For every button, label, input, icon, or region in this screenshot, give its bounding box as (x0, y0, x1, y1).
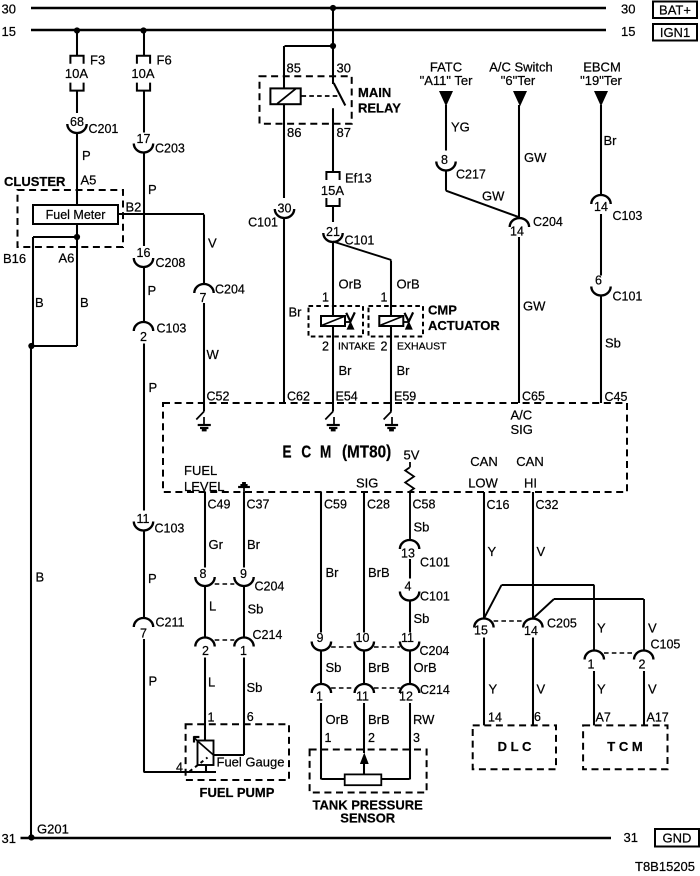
svg-text:C28: C28 (367, 498, 390, 512)
svg-text:W: W (207, 347, 220, 362)
svg-text:21: 21 (326, 225, 340, 239)
svg-text:A17: A17 (647, 711, 669, 725)
svg-text:CLUSTER: CLUSTER (4, 174, 66, 189)
svg-text:T C M: T C M (607, 739, 642, 754)
svg-text:Sb: Sb (605, 336, 621, 351)
svg-text:INTAKE: INTAKE (338, 341, 375, 353)
svg-text:CMP: CMP (428, 303, 457, 318)
svg-text:GW: GW (524, 150, 547, 165)
svg-text:OrB: OrB (339, 277, 362, 292)
svg-text:10: 10 (356, 631, 370, 645)
svg-text:GW: GW (523, 299, 546, 314)
svg-text:Ef13: Ef13 (345, 171, 372, 186)
svg-text:A/C: A/C (511, 408, 533, 423)
svg-text:SIG: SIG (356, 476, 378, 491)
svg-text:15A: 15A (321, 183, 344, 198)
svg-text:2: 2 (381, 340, 388, 354)
svg-text:31: 31 (2, 831, 16, 846)
svg-text:E54: E54 (336, 390, 358, 404)
svg-text:HI: HI (524, 476, 537, 491)
svg-text:SENSOR: SENSOR (340, 811, 396, 826)
svg-text:85: 85 (287, 61, 301, 76)
svg-text:P: P (149, 674, 158, 689)
svg-text:Y: Y (489, 682, 498, 697)
svg-text:GW: GW (482, 189, 505, 204)
svg-text:A5: A5 (81, 173, 97, 188)
svg-text:30: 30 (621, 2, 635, 17)
svg-text:LEVEL: LEVEL (184, 479, 224, 494)
svg-text:IGN1: IGN1 (660, 25, 690, 40)
svg-text:86: 86 (287, 125, 301, 140)
svg-text:4: 4 (176, 761, 183, 775)
svg-text:SIG: SIG (511, 422, 533, 437)
svg-text:Y: Y (597, 621, 606, 636)
svg-text:L: L (208, 675, 215, 690)
svg-text:14: 14 (488, 711, 502, 725)
svg-text:Br: Br (289, 305, 303, 320)
svg-text:C62: C62 (287, 390, 310, 404)
svg-text:BrB: BrB (368, 712, 390, 727)
svg-text:BrB: BrB (368, 565, 390, 580)
svg-text:1: 1 (381, 291, 388, 305)
svg-text:1: 1 (240, 644, 247, 658)
svg-text:68: 68 (70, 115, 84, 129)
svg-text:F3: F3 (90, 53, 105, 68)
svg-text:Br: Br (326, 565, 340, 580)
svg-text:Br: Br (247, 537, 261, 552)
svg-text:7: 7 (200, 291, 207, 305)
svg-text:CAN: CAN (516, 454, 543, 469)
svg-text:15: 15 (2, 24, 16, 39)
svg-text:Sb: Sb (248, 602, 264, 617)
svg-text:B: B (36, 570, 45, 585)
svg-text:C204: C204 (533, 215, 563, 229)
svg-text:10A: 10A (65, 66, 88, 81)
svg-text:C203: C203 (155, 142, 185, 156)
svg-text:C32: C32 (536, 498, 559, 512)
svg-text:1: 1 (325, 731, 332, 745)
svg-text:C16: C16 (487, 498, 510, 512)
svg-text:15: 15 (474, 624, 488, 638)
svg-text:OrB: OrB (326, 712, 349, 727)
svg-text:L: L (209, 599, 216, 614)
svg-text:C103: C103 (155, 522, 185, 536)
svg-text:C59: C59 (324, 498, 347, 512)
svg-text:14: 14 (594, 200, 608, 214)
svg-text:T8B15205: T8B15205 (635, 859, 695, 874)
svg-text:C204: C204 (420, 644, 450, 658)
svg-text:2: 2 (202, 644, 209, 658)
svg-text:16: 16 (137, 246, 151, 260)
svg-text:B16: B16 (3, 251, 26, 266)
svg-text:Fuel Meter: Fuel Meter (46, 208, 106, 222)
svg-text:C45: C45 (605, 390, 628, 404)
svg-text:1: 1 (588, 658, 595, 672)
svg-text:B2: B2 (126, 200, 142, 215)
svg-text:V: V (537, 682, 546, 697)
svg-text:C65: C65 (522, 390, 545, 404)
svg-text:E: E (283, 443, 292, 462)
svg-text:C101: C101 (420, 556, 450, 570)
svg-text:GND: GND (663, 831, 692, 846)
svg-text:OrB: OrB (414, 660, 437, 675)
svg-text:D L C: D L C (498, 739, 532, 754)
svg-text:C204: C204 (215, 283, 245, 297)
svg-text:9: 9 (317, 631, 324, 645)
svg-text:12: 12 (399, 690, 413, 704)
svg-text:1: 1 (322, 291, 329, 305)
svg-text:8: 8 (441, 153, 448, 167)
svg-text:Br: Br (339, 363, 353, 378)
svg-text:Sb: Sb (326, 660, 342, 675)
svg-text:2: 2 (368, 731, 375, 745)
svg-text:9: 9 (240, 567, 247, 581)
svg-text:FUEL PUMP: FUEL PUMP (200, 785, 275, 800)
svg-text:BrB: BrB (368, 660, 390, 675)
svg-text:C: C (301, 443, 311, 462)
svg-text:V: V (208, 236, 217, 251)
svg-text:P: P (148, 571, 157, 586)
svg-text:(MT80): (MT80) (342, 443, 391, 462)
svg-text:C103: C103 (157, 322, 187, 336)
svg-text:Sb: Sb (247, 680, 263, 695)
svg-text:4: 4 (405, 580, 412, 594)
svg-text:31: 31 (624, 830, 638, 845)
svg-text:BAT+: BAT+ (659, 3, 691, 18)
svg-text:10A: 10A (131, 66, 154, 81)
svg-text:Fuel Gauge: Fuel Gauge (217, 755, 285, 770)
svg-text:14: 14 (524, 624, 538, 638)
svg-text:2: 2 (140, 330, 147, 344)
svg-text:2: 2 (639, 658, 646, 672)
svg-text:3: 3 (413, 731, 420, 745)
svg-text:5V: 5V (404, 448, 420, 463)
svg-text:30: 30 (278, 202, 292, 216)
svg-text:Br: Br (604, 133, 618, 148)
svg-text:C101: C101 (613, 290, 643, 304)
svg-text:Gr: Gr (209, 537, 224, 552)
svg-text:YG: YG (451, 120, 470, 135)
svg-text:LOW: LOW (468, 476, 498, 491)
svg-text:MAIN: MAIN (358, 85, 391, 100)
svg-text:Y: Y (488, 544, 497, 559)
svg-text:C101: C101 (420, 590, 450, 604)
svg-text:C214: C214 (420, 683, 450, 697)
svg-text:C103: C103 (613, 209, 643, 223)
svg-text:6: 6 (534, 710, 541, 724)
svg-text:C204: C204 (255, 580, 285, 594)
svg-text:30: 30 (337, 61, 351, 76)
svg-text:C105: C105 (651, 638, 681, 652)
svg-text:M: M (320, 443, 331, 462)
svg-text:CAN: CAN (470, 454, 497, 469)
svg-text:V: V (648, 621, 657, 636)
svg-text:C217: C217 (456, 168, 486, 182)
svg-text:1: 1 (316, 690, 323, 704)
svg-text:C208: C208 (156, 256, 186, 270)
svg-text:1: 1 (208, 711, 215, 725)
svg-text:P: P (82, 148, 91, 163)
svg-text:C49: C49 (208, 498, 231, 512)
svg-text:"19"Ter: "19"Ter (580, 73, 622, 88)
svg-text:G201: G201 (37, 822, 69, 837)
svg-text:13: 13 (401, 547, 415, 561)
svg-text:6: 6 (595, 274, 602, 288)
svg-text:FUEL: FUEL (184, 463, 217, 478)
svg-text:C37: C37 (247, 498, 270, 512)
svg-text:87: 87 (337, 125, 351, 140)
svg-text:8: 8 (200, 567, 207, 581)
svg-text:F6: F6 (157, 53, 172, 68)
svg-text:C211: C211 (156, 616, 185, 630)
svg-text:E59: E59 (394, 390, 416, 404)
svg-text:11: 11 (137, 512, 150, 526)
svg-text:Y: Y (597, 682, 606, 697)
svg-text:A7: A7 (596, 711, 611, 725)
svg-text:OrB: OrB (397, 277, 420, 292)
svg-text:ACTUATOR: ACTUATOR (428, 318, 500, 333)
svg-text:P: P (148, 182, 157, 197)
svg-text:7: 7 (140, 627, 147, 641)
svg-text:A6: A6 (59, 251, 75, 266)
svg-text:C52: C52 (207, 390, 230, 404)
svg-text:6: 6 (247, 710, 254, 724)
svg-text:C58: C58 (413, 498, 436, 512)
svg-text:Sb: Sb (414, 611, 430, 626)
svg-text:B: B (80, 295, 89, 310)
svg-text:Br: Br (397, 363, 411, 378)
svg-text:"6"Ter: "6"Ter (501, 73, 536, 88)
svg-text:V: V (648, 682, 657, 697)
svg-text:P: P (148, 283, 157, 298)
svg-text:15: 15 (621, 24, 635, 39)
svg-text:17: 17 (137, 132, 151, 146)
svg-text:C101: C101 (345, 234, 375, 248)
svg-text:14: 14 (510, 225, 524, 239)
svg-text:2: 2 (322, 340, 329, 354)
svg-text:11: 11 (356, 690, 369, 704)
svg-text:30: 30 (2, 2, 16, 17)
svg-text:C101: C101 (248, 216, 278, 230)
svg-text:"A11" Ter: "A11" Ter (420, 73, 474, 88)
svg-text:P: P (149, 380, 158, 395)
svg-text:RW: RW (413, 712, 435, 727)
svg-text:C201: C201 (89, 122, 119, 136)
svg-text:RELAY: RELAY (358, 101, 401, 116)
svg-text:C214: C214 (253, 628, 283, 642)
svg-text:11: 11 (401, 631, 414, 645)
svg-text:B: B (35, 295, 44, 310)
svg-text:C205: C205 (547, 617, 577, 631)
svg-text:V: V (537, 544, 546, 559)
svg-text:Sb: Sb (414, 520, 430, 535)
svg-text:EXHAUST: EXHAUST (397, 341, 447, 353)
